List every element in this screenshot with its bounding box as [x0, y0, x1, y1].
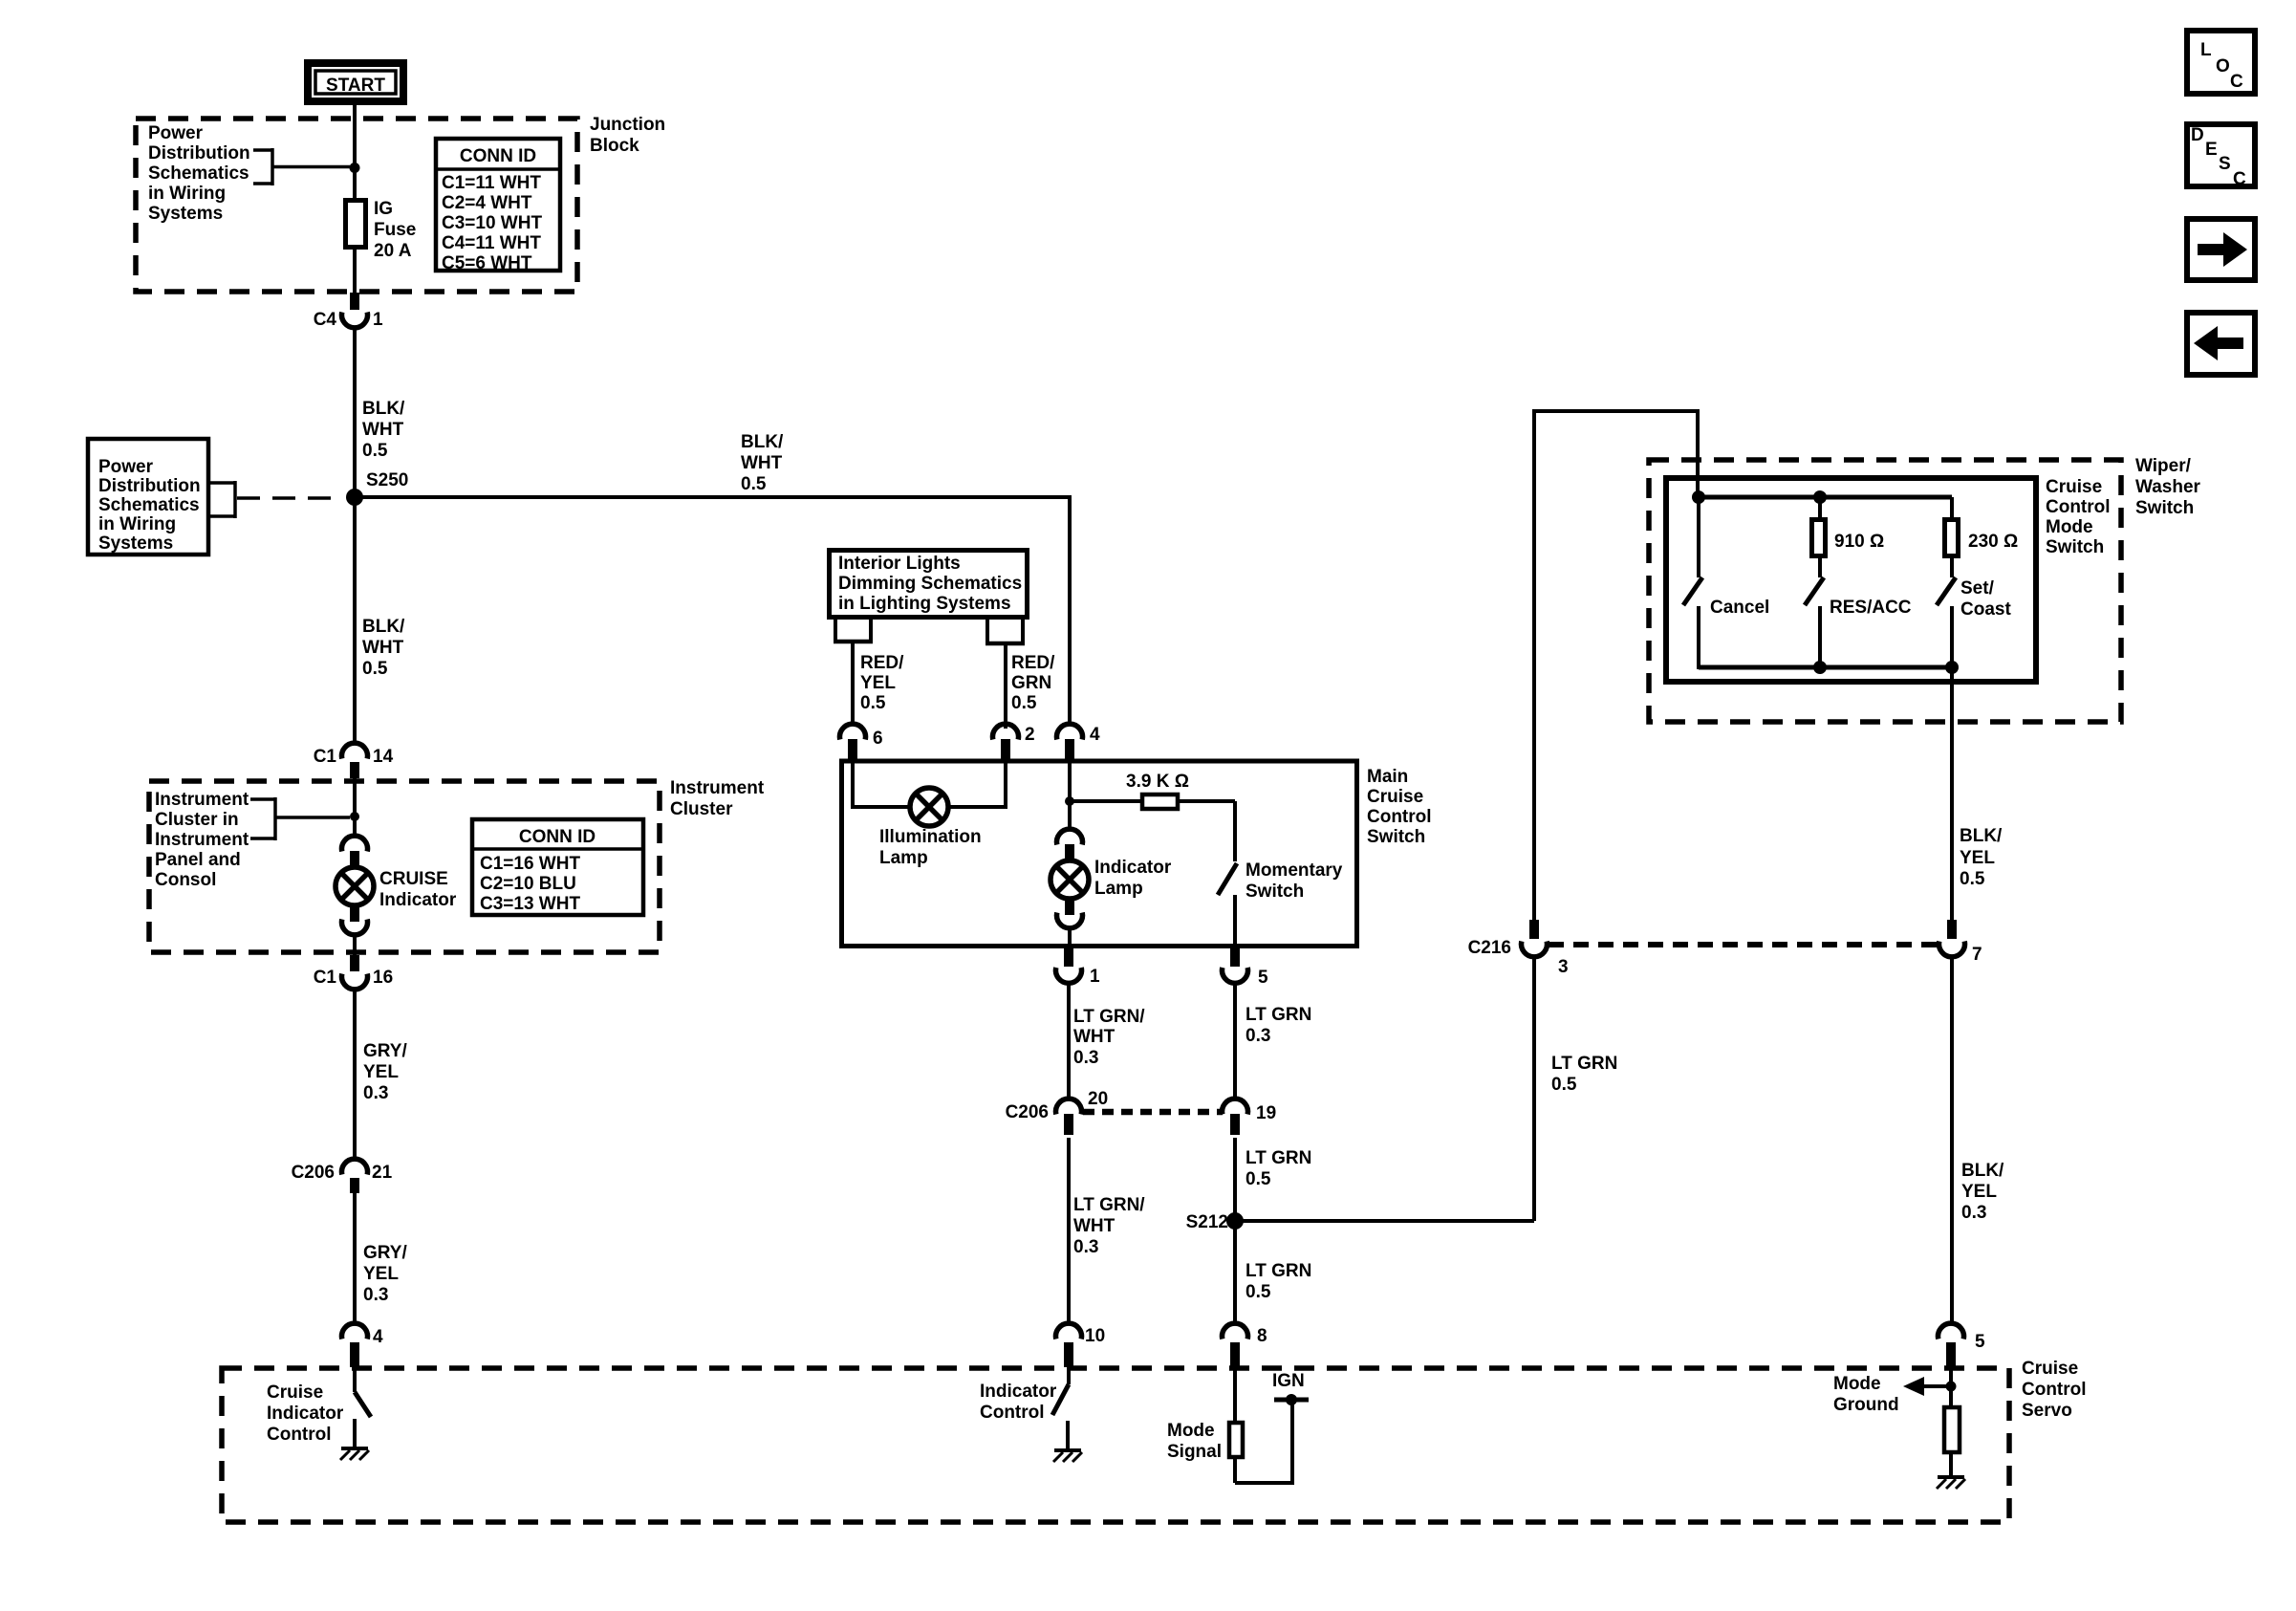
svg-text:C3=13 WHT: C3=13 WHT [480, 894, 580, 914]
svg-text:0.5: 0.5 [1245, 1169, 1271, 1189]
svg-text:0.5: 0.5 [362, 659, 388, 679]
svg-text:YEL: YEL [1961, 1182, 1997, 1202]
svg-text:0.5: 0.5 [1960, 869, 1985, 889]
svg-text:YEL: YEL [363, 1062, 399, 1082]
svg-text:BLK/: BLK/ [362, 399, 405, 419]
svg-text:8: 8 [1257, 1326, 1267, 1346]
svg-text:E: E [2205, 140, 2218, 160]
svg-text:Cruise: Cruise [1367, 787, 1423, 807]
svg-text:Signal: Signal [1167, 1442, 1222, 1462]
svg-text:LT GRN: LT GRN [1245, 1148, 1311, 1168]
svg-text:CONN ID: CONN ID [460, 146, 536, 166]
svg-text:Illumination: Illumination [879, 827, 982, 847]
svg-text:Cruise: Cruise [2046, 477, 2102, 497]
svg-text:C: C [2230, 72, 2243, 92]
svg-text:LT GRN: LT GRN [1245, 1261, 1311, 1281]
svg-text:7: 7 [1972, 945, 1982, 965]
svg-text:C1: C1 [314, 747, 337, 767]
svg-text:C2=4 WHT: C2=4 WHT [442, 193, 532, 213]
svg-text:1: 1 [373, 310, 383, 330]
svg-text:Wiper/: Wiper/ [2135, 456, 2192, 476]
svg-text:GRY/: GRY/ [363, 1243, 407, 1263]
svg-text:0.3: 0.3 [363, 1083, 388, 1103]
svg-text:Power: Power [98, 457, 154, 477]
svg-text:0.5: 0.5 [860, 693, 886, 713]
svg-text:Servo: Servo [2022, 1401, 2072, 1421]
svg-text:C206: C206 [1006, 1102, 1049, 1122]
svg-text:Lamp: Lamp [1094, 879, 1143, 899]
svg-text:Ground: Ground [1833, 1395, 1899, 1415]
svg-text:S250: S250 [366, 470, 408, 490]
svg-text:Instrument: Instrument [155, 830, 249, 850]
svg-text:START: START [326, 76, 385, 96]
svg-text:Fuse: Fuse [374, 220, 416, 240]
svg-text:Switch: Switch [1245, 882, 1304, 902]
svg-text:Instrument: Instrument [155, 790, 249, 810]
svg-text:Instrument: Instrument [670, 778, 765, 798]
svg-text:CRUISE: CRUISE [379, 869, 448, 889]
svg-text:GRN: GRN [1011, 673, 1051, 693]
svg-text:Mode: Mode [1833, 1374, 1881, 1394]
svg-text:0.5: 0.5 [1011, 693, 1037, 713]
svg-text:C5=6 WHT: C5=6 WHT [442, 253, 532, 273]
svg-text:BLK/: BLK/ [741, 432, 784, 452]
svg-text:Control: Control [2022, 1380, 2087, 1400]
svg-text:20: 20 [1088, 1089, 1108, 1109]
svg-text:WHT: WHT [1073, 1027, 1116, 1047]
svg-text:IGN: IGN [1272, 1371, 1305, 1391]
svg-text:Dimming Schematics: Dimming Schematics [838, 574, 1022, 594]
svg-text:0.3: 0.3 [1073, 1237, 1098, 1257]
svg-text:C3=10 WHT: C3=10 WHT [442, 213, 542, 233]
svg-text:Switch: Switch [2135, 498, 2194, 518]
svg-text:21: 21 [372, 1163, 393, 1183]
svg-text:Mode: Mode [1167, 1421, 1215, 1441]
svg-text:WHT: WHT [1073, 1216, 1116, 1236]
svg-text:0.3: 0.3 [1245, 1026, 1270, 1046]
svg-text:16: 16 [373, 968, 393, 988]
svg-text:Power: Power [148, 123, 204, 143]
svg-text:IG: IG [374, 199, 393, 219]
svg-text:0.5: 0.5 [741, 474, 767, 494]
svg-text:1: 1 [1090, 967, 1100, 987]
svg-text:S: S [2219, 154, 2231, 174]
svg-text:Schematics: Schematics [98, 495, 200, 515]
svg-text:WHT: WHT [741, 453, 783, 473]
svg-text:L: L [2200, 40, 2212, 60]
svg-text:RED/: RED/ [1011, 653, 1055, 673]
svg-text:Cluster: Cluster [670, 799, 733, 819]
svg-text:0.5: 0.5 [1551, 1075, 1577, 1095]
svg-text:19: 19 [1256, 1103, 1276, 1123]
svg-text:0.3: 0.3 [1073, 1048, 1098, 1068]
svg-text:0.5: 0.5 [1245, 1282, 1271, 1302]
svg-text:20 A: 20 A [374, 241, 412, 261]
svg-text:in Wiring: in Wiring [148, 184, 226, 204]
svg-text:Indicator: Indicator [379, 890, 457, 910]
svg-text:Coast: Coast [1960, 599, 2011, 620]
svg-text:in Wiring: in Wiring [98, 514, 176, 534]
svg-text:Lamp: Lamp [879, 848, 928, 868]
svg-text:C1: C1 [314, 968, 337, 988]
svg-text:Indicator: Indicator [1094, 858, 1172, 878]
svg-text:Control: Control [980, 1403, 1045, 1423]
svg-text:14: 14 [373, 747, 394, 767]
svg-text:C206: C206 [292, 1163, 335, 1183]
svg-text:Control: Control [1367, 807, 1432, 827]
svg-text:Indicator: Indicator [980, 1382, 1057, 1402]
svg-text:LT GRN/: LT GRN/ [1073, 1007, 1145, 1027]
svg-text:Switch: Switch [2046, 537, 2104, 557]
svg-text:C2=10 BLU: C2=10 BLU [480, 874, 576, 894]
svg-text:Interior Lights: Interior Lights [838, 554, 961, 574]
svg-text:6: 6 [873, 729, 883, 749]
svg-text:LT GRN/: LT GRN/ [1073, 1195, 1145, 1215]
svg-text:Cancel: Cancel [1710, 598, 1769, 618]
svg-text:YEL: YEL [860, 673, 896, 693]
svg-text:CONN ID: CONN ID [519, 827, 596, 847]
svg-text:910 Ω: 910 Ω [1834, 532, 1884, 552]
svg-text:Control: Control [267, 1425, 332, 1445]
svg-text:0.3: 0.3 [363, 1285, 388, 1305]
svg-text:230 Ω: 230 Ω [1968, 532, 2018, 552]
svg-text:4: 4 [373, 1327, 383, 1347]
svg-text:Distribution: Distribution [148, 143, 250, 163]
svg-text:C1=16 WHT: C1=16 WHT [480, 854, 580, 874]
svg-text:Cruise: Cruise [2022, 1359, 2078, 1379]
svg-text:Systems: Systems [148, 204, 223, 224]
svg-text:RES/ACC: RES/ACC [1830, 598, 1912, 618]
svg-text:YEL: YEL [363, 1264, 399, 1284]
svg-text:GRY/: GRY/ [363, 1041, 407, 1061]
svg-text:BLK/: BLK/ [1961, 1161, 2004, 1181]
svg-text:BLK/: BLK/ [1960, 826, 2003, 846]
svg-text:Control: Control [2046, 497, 2111, 517]
svg-text:Washer: Washer [2135, 477, 2201, 497]
svg-text:Cluster in: Cluster in [155, 810, 239, 830]
svg-text:Distribution: Distribution [98, 476, 201, 496]
svg-text:BLK/: BLK/ [362, 617, 405, 637]
svg-text:Main: Main [1367, 767, 1408, 787]
svg-text:in Lighting Systems: in Lighting Systems [838, 594, 1011, 614]
svg-text:Indicator: Indicator [267, 1404, 344, 1424]
svg-text:Mode: Mode [2046, 517, 2093, 537]
svg-text:Systems: Systems [98, 533, 173, 554]
svg-text:5: 5 [1258, 968, 1268, 988]
svg-text:Cruise: Cruise [267, 1382, 323, 1403]
svg-text:Set/: Set/ [1960, 578, 1995, 599]
svg-text:5: 5 [1975, 1332, 1985, 1352]
svg-text:Switch: Switch [1367, 827, 1425, 847]
svg-text:YEL: YEL [1960, 848, 1995, 868]
svg-text:3: 3 [1558, 957, 1569, 977]
svg-text:C216: C216 [1468, 938, 1511, 958]
svg-text:3.9 K Ω: 3.9 K Ω [1126, 772, 1189, 792]
svg-text:4: 4 [1090, 725, 1100, 745]
svg-text:C1=11 WHT: C1=11 WHT [442, 173, 541, 193]
svg-text:0.3: 0.3 [1961, 1203, 1986, 1223]
svg-text:Momentary: Momentary [1245, 860, 1343, 881]
svg-text:Junction: Junction [590, 115, 665, 135]
svg-text:C4: C4 [314, 310, 337, 330]
svg-text:Schematics: Schematics [148, 163, 249, 184]
svg-text:2: 2 [1025, 725, 1035, 745]
svg-text:10: 10 [1085, 1326, 1105, 1346]
svg-text:0.5: 0.5 [362, 441, 388, 461]
svg-text:Panel and: Panel and [155, 850, 241, 870]
svg-text:C4=11 WHT: C4=11 WHT [442, 233, 541, 253]
svg-text:RED/: RED/ [860, 653, 904, 673]
svg-text:WHT: WHT [362, 420, 404, 440]
svg-text:D: D [2191, 125, 2204, 145]
svg-text:C: C [2233, 169, 2246, 189]
svg-text:WHT: WHT [362, 638, 404, 658]
svg-text:O: O [2216, 56, 2230, 76]
svg-text:Block: Block [590, 136, 639, 156]
svg-text:LT GRN: LT GRN [1551, 1054, 1617, 1074]
svg-text:LT GRN: LT GRN [1245, 1005, 1311, 1025]
svg-text:Consol: Consol [155, 870, 216, 890]
svg-text:S212: S212 [1186, 1212, 1228, 1232]
